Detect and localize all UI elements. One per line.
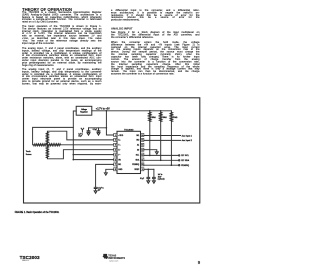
svg-text:0.1µF: 0.1µF [93, 129, 97, 131]
pin 5 [114, 153, 117, 156]
terminal SDA [179, 160, 180, 161]
capacitor C6 [94, 187, 97, 191]
svg-text:0.1µF to: 0.1µF to [98, 187, 104, 190]
wire Y- to pin 4 [47, 150, 113, 159]
svg-text:10: 10 [141, 164, 143, 166]
svg-text:Voltage: Voltage [81, 108, 87, 111]
left column paragraph 3 [22, 47, 102, 125]
wire aux input 2 [144, 139, 181, 141]
node VREF [148, 169, 150, 171]
svg-text:IN1: IN1 [136, 135, 139, 137]
svg-text:6: 6 [115, 159, 116, 161]
resistor R3 10k pull-up [170, 111, 172, 113]
heading ANALOG INPUT [111, 27, 320, 39]
ground C2 [87, 133, 90, 135]
left column paragraph 4 [22, 68, 102, 136]
pin 4 [114, 148, 117, 151]
left column paragraph 1 [22, 11, 102, 60]
svg-text:PENIRQ: PENIRQ [181, 165, 189, 167]
svg-text:10µF: 10µF [78, 136, 82, 138]
svg-text:1µF: 1µF [98, 190, 101, 192]
svg-text:10kΩ: 10kΩ [152, 117, 157, 119]
svg-text:TEXAS: TEXAS [108, 254, 116, 257]
pin 2 [114, 138, 117, 141]
net +2.7V rail [92, 110, 172, 112]
node rail-r1 [149, 110, 151, 112]
node rail-r2 [160, 110, 162, 112]
TI map glyph [103, 254, 109, 259]
ground A0 [155, 152, 158, 154]
svg-text:16: 16 [141, 135, 143, 137]
capacitor C5 [153, 169, 156, 181]
svg-text:13: 13 [141, 150, 143, 152]
svg-text:IN1: IN1 [118, 164, 121, 166]
resistor R2 10k pull-up [160, 111, 162, 113]
svg-text:0.1µF: 0.1µF [140, 178, 144, 180]
wire to pin 7 [73, 159, 113, 161]
svg-text:GND: GND [118, 169, 123, 171]
wire X- to pin 3 [61, 144, 114, 146]
ground C4 [147, 181, 150, 183]
pin 6 [114, 158, 117, 161]
svg-text:14: 14 [141, 145, 143, 147]
capacitor C3 0.1uF [97, 128, 100, 133]
pin 15 [141, 138, 144, 141]
pin 8 [114, 168, 117, 171]
svg-text:15: 15 [141, 140, 143, 142]
node cap rail [106, 127, 108, 129]
resistor R1 10k pull-up [149, 111, 151, 113]
svg-text:8: 8 [115, 169, 116, 171]
svg-text:Aux Input 1: Aux Input 1 [182, 134, 193, 137]
wire A0 to ground [144, 150, 157, 152]
svg-text:12: 12 [141, 154, 143, 156]
figure frame [24, 98, 200, 203]
pin 11 [141, 158, 144, 161]
pin 1 [114, 134, 117, 137]
pin 3 [114, 143, 117, 146]
pin 12 [141, 153, 144, 156]
svg-text:SDA: SDA [135, 158, 139, 161]
svg-text:1: 1 [115, 135, 116, 137]
ground pin8 [104, 173, 107, 175]
svg-text:VB: VB [118, 159, 121, 161]
svg-text:10kΩ: 10kΩ [173, 117, 178, 119]
svg-text:X−: X− [118, 150, 120, 152]
pin 13 [141, 148, 144, 151]
svg-text:X+: X+ [118, 140, 120, 142]
svg-text:1µF to: 1µF to [78, 133, 83, 136]
svg-text:A1: A1 [137, 144, 139, 147]
svg-text:IN2: IN2 [136, 140, 139, 142]
capacitor C2 [87, 128, 90, 133]
svg-text:TSC2003: TSC2003 [124, 129, 134, 131]
ground C6 [94, 191, 97, 193]
wire VDD drop to pin 1 [106, 111, 113, 135]
footer left part number [20, 255, 40, 260]
pin 14 [141, 143, 144, 146]
svg-text:Aux Input 2: Aux Input 2 [182, 139, 193, 142]
wire bypass rail [89, 127, 107, 129]
svg-text:PENIRQ: PENIRQ [132, 164, 139, 166]
IC U1 TSC2003 [117, 131, 141, 173]
footer TI logo [101, 253, 137, 267]
node touch center [47, 144, 49, 146]
svg-text:Regulator: Regulator [80, 111, 88, 114]
symbol +2.5V fork [81, 128, 84, 132]
svg-text:2: 2 [115, 140, 116, 142]
svg-text:5: 5 [115, 154, 116, 156]
svg-text:A0: A0 [137, 149, 139, 152]
right column paragraph 1 [111, 31, 200, 60]
right column paragraph 2 [111, 41, 200, 178]
node rail-vdd [106, 110, 108, 112]
wire Y+ to pin 2 [47, 131, 113, 140]
pin 10 [141, 163, 144, 166]
capacitor C4 [147, 169, 150, 181]
svg-text:10kΩ: 10kΩ [163, 117, 168, 119]
wire pin7 cap [96, 164, 114, 187]
wire aux input 1 [144, 135, 181, 137]
svg-text:9: 9 [142, 169, 143, 171]
svg-text:1nF to: 1nF to [158, 173, 163, 176]
wire X+ loop [33, 127, 74, 144]
voltage regulator U2 [76, 106, 92, 115]
svg-text:SCL: SCL [136, 154, 140, 156]
svg-text:VREF: VREF [134, 169, 140, 171]
left column paragraph 2 [22, 25, 102, 103]
pin 7 [114, 163, 117, 166]
right column continuation paragraph [111, 9, 200, 58]
ground C5 [152, 181, 155, 183]
svg-text:Screen: Screen [26, 154, 32, 156]
ground C3 [97, 133, 100, 135]
wire VREF caps [144, 168, 154, 170]
svg-text:+VDD: +VDD [118, 135, 124, 137]
wire SCL [144, 154, 179, 156]
footer page number 9 [198, 260, 200, 265]
wire PENIRQ [144, 164, 179, 166]
terminal SCL [179, 155, 180, 156]
node J2 [73, 159, 75, 161]
svg-text:I2C SCL: I2C SCL [181, 155, 190, 157]
svg-text:FIGURE 1. Basic Operation of t: FIGURE 1. Basic Operation of the TSC2003… [15, 211, 60, 214]
wire to pin 6 [73, 154, 113, 156]
pin 9 [141, 168, 144, 171]
svg-text:4: 4 [115, 150, 116, 152]
svg-text:10nF: 10nF [158, 176, 162, 178]
wire SDA [144, 159, 179, 161]
svg-text:Y+: Y+ [118, 145, 120, 147]
svg-text:www.ti.com: www.ti.com [109, 260, 119, 263]
svg-text:Y−: Y− [118, 154, 120, 156]
svg-text:+2.7V to +5V: +2.7V to +5V [96, 108, 110, 111]
svg-text:7: 7 [115, 164, 116, 166]
wire regulator to bus [73, 111, 76, 160]
node J1 [73, 154, 75, 156]
pin 16 [141, 134, 144, 137]
wire GND pin 8 [106, 169, 114, 173]
section title [22, 7, 320, 27]
terminal PENIRQ [179, 165, 180, 166]
touch screen resistive panel [34, 144, 47, 146]
svg-text:3: 3 [115, 145, 116, 147]
svg-text:I2C SDA: I2C SDA [181, 159, 190, 162]
svg-text:11: 11 [141, 159, 143, 161]
